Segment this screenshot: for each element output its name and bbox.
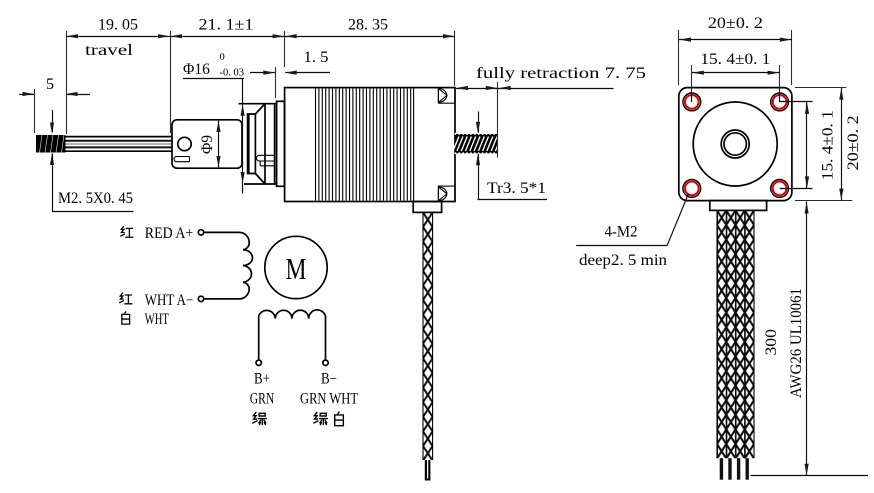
dimension 19.05 travel — [66, 17, 171, 134]
terminal A- — [198, 296, 203, 301]
svg-text:5: 5 — [46, 76, 54, 93]
svg-text:28. 35: 28. 35 — [348, 17, 388, 34]
svg-text:Tr3. 5*1: Tr3. 5*1 — [487, 180, 546, 197]
dimension 15.4±0.1 top — [692, 51, 780, 102]
svg-text:deep2. 5 min: deep2. 5 min — [579, 252, 667, 269]
coupling slot and step — [256, 155, 275, 166]
mounting hole bottom-right — [771, 180, 789, 198]
mounting hole top-left — [683, 93, 701, 111]
dimension 15.4±0.1 right — [805, 102, 837, 188]
label 4-M2 deep2.5 min with leader — [576, 194, 688, 270]
dimension Φ9 — [199, 121, 221, 168]
svg-text:B−: B− — [321, 370, 337, 387]
cable braid left view — [423, 212, 433, 460]
label 红 WHT A- — [120, 292, 194, 309]
svg-text:4-M2: 4-M2 — [605, 224, 638, 241]
terminal B+ — [256, 360, 261, 365]
svg-text:B+: B+ — [254, 370, 270, 387]
wire and coil A — [204, 232, 253, 299]
dimension 21.1±1 — [170, 17, 285, 67]
terminal B- — [323, 360, 328, 365]
motor symbol M — [265, 236, 327, 298]
svg-text:WHT A−: WHT A− — [145, 292, 194, 309]
svg-text:300: 300 — [763, 329, 780, 356]
cable gland left view — [413, 202, 441, 213]
coil B — [259, 310, 326, 360]
motor face square — [679, 88, 792, 201]
shaft hole outer — [721, 130, 749, 158]
label 白 WHT — [122, 311, 169, 328]
svg-text:15. 4±0. 1: 15. 4±0. 1 — [700, 51, 770, 68]
svg-text:Φ9: Φ9 — [199, 135, 216, 154]
motor body — [285, 88, 455, 202]
label 绿 — [253, 412, 267, 424]
svg-text:15. 4±0. 1: 15. 4±0. 1 — [820, 110, 837, 180]
mounting hole top-right — [771, 93, 789, 111]
motor body fins — [316, 89, 414, 201]
svg-text:WHT: WHT — [145, 311, 169, 328]
mounting hole bottom-left — [683, 180, 701, 198]
svg-text:GRN WHT: GRN WHT — [300, 390, 358, 407]
svg-text:19. 05: 19. 05 — [98, 17, 138, 34]
lead wires front view — [720, 458, 749, 480]
svg-text:M: M — [286, 251, 307, 286]
lead screw shaft — [66, 137, 173, 152]
coupling bell drum — [239, 104, 277, 184]
svg-text:1. 5: 1. 5 — [304, 49, 329, 66]
dimension 5 — [19, 76, 90, 133]
slider bracket — [172, 120, 242, 168]
dimension 28.35 — [285, 17, 455, 86]
svg-text:20±0. 2: 20±0. 2 — [845, 115, 862, 170]
svg-text:Φ16: Φ16 — [183, 61, 210, 78]
corner screw boss top — [438, 88, 455, 104]
dimension fully retraction 7.75 — [456, 65, 646, 158]
cable gland front view — [710, 201, 767, 211]
terminal A+ — [198, 230, 203, 235]
dimension 1.5 — [250, 49, 330, 98]
cable braid front view — [717, 210, 754, 458]
svg-text:AWG26 UL10061: AWG26 UL10061 — [788, 288, 805, 398]
svg-text:RED A+: RED A+ — [145, 225, 194, 242]
label Tr3.5*1 with leader arrows — [476, 112, 547, 200]
svg-text:0: 0 — [220, 52, 225, 63]
label Φ16 with tolerance and dimension — [183, 52, 245, 194]
shaft hole inner — [724, 133, 746, 155]
dimension 300 cable length — [751, 202, 869, 476]
wire end left view — [425, 460, 431, 481]
rear screw Tr3.5 — [453, 133, 501, 154]
svg-text:fully retraction 7. 75: fully retraction 7. 75 — [476, 65, 646, 82]
corner screw boss bottom — [438, 186, 455, 201]
label 红 RED A+ — [121, 225, 194, 242]
threaded rod M2.5 — [36, 135, 66, 153]
dimension 20±0.2 top — [679, 15, 792, 85]
svg-text:M2. 5X0. 45: M2. 5X0. 45 — [58, 190, 133, 207]
hole centre extension lines — [692, 93, 813, 189]
svg-text:21. 1±1: 21. 1±1 — [199, 17, 254, 34]
svg-text:-0. 03: -0. 03 — [220, 68, 245, 79]
pilot circle — [693, 102, 777, 186]
dimension 20±0.2 right — [795, 88, 862, 201]
motor front plate — [277, 101, 285, 186]
coupling bell lip — [247, 114, 256, 174]
label M2.5X0.45 with leader arrows — [50, 110, 134, 212]
svg-text:GRN: GRN — [250, 390, 275, 407]
label 绿白 — [314, 412, 344, 426]
svg-text:travel: travel — [85, 42, 134, 59]
coupling bell cone — [255, 104, 265, 184]
svg-text:20±0. 2: 20±0. 2 — [708, 15, 763, 32]
